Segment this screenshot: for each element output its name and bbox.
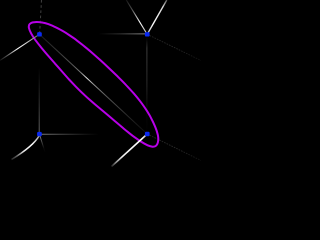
wire dashed spoke up from N1 [40, 0, 42, 34]
node N4 bottom-right [145, 132, 150, 136]
wire bottom edge N3-N4 [39, 133, 147, 135]
wire white spoke up-right from N2 [147, 0, 167, 34]
wire white spoke down-left from N3 [12, 136, 40, 160]
wire white spoke up-left from N2 [126, 0, 147, 34]
wire diagonal N1-N4 [39, 34, 147, 134]
wire left edge N1-N3 [38, 34, 40, 134]
wire short spoke down from N3 [39, 134, 51, 171]
wire top edge N1-N2 [39, 33, 147, 35]
selection ellipse [29, 22, 159, 147]
wire right edge N2-N4 [146, 34, 148, 134]
wire dark spoke down-right from N4 [147, 134, 201, 161]
wire white spoke down-left from N1 [0, 34, 39, 60]
node N1 top-left [37, 32, 42, 36]
wire white spoke down-left from N4 [112, 134, 148, 167]
node N2 top-right [145, 32, 150, 36]
wire dark spoke down-right from N2 [147, 34, 201, 60]
node N3 bottom-left [37, 132, 42, 136]
